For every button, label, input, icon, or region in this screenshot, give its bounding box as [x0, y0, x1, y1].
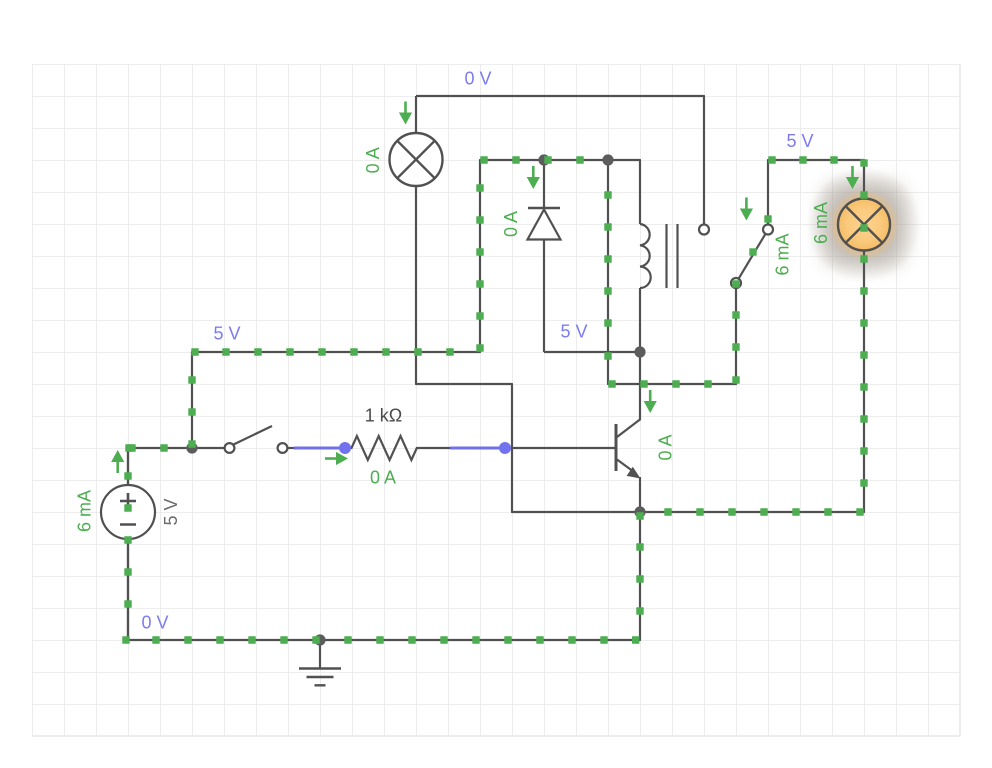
wire current dots sq-x736	[732, 280, 739, 383]
wire 5V right (pivot to lamp L2)	[768, 160, 864, 224]
svg-text:0 A: 0 A	[655, 434, 675, 460]
wire (selected, blue) left of resistor	[288, 447, 298, 449]
wire current dots sq-x128	[124, 444, 132, 607]
wire current dots sq-y352-left	[191, 348, 453, 355]
diode D1	[528, 160, 561, 352]
svg-text:0 A: 0 A	[370, 467, 396, 487]
wire (selected, blue) right of resistor	[450, 447, 502, 450]
voltage source B1 5V	[101, 448, 155, 640]
switch S1 (open)	[192, 426, 287, 453]
wire base	[505, 447, 615, 449]
svg-text:6 mA: 6 mA	[74, 490, 94, 532]
relay switch common bottom	[731, 278, 741, 288]
wire current dots sq-y384	[608, 380, 711, 387]
current arrow at resistor R1	[325, 457, 337, 460]
svg-text:5 V: 5 V	[560, 321, 587, 341]
current arrow at source B1	[116, 462, 119, 474]
svg-text:0 A: 0 A	[363, 147, 383, 173]
wire 0V top	[416, 96, 704, 224]
wire current dots sq-x640	[632, 543, 644, 643]
wire coil bottom to collector node	[639, 288, 641, 352]
node C junction dot	[186, 442, 197, 453]
wire current dots sq-y160-right	[768, 156, 837, 163]
node B junction dot	[602, 154, 613, 165]
resistor R1 1k	[345, 436, 450, 460]
wire current dots sq-y640	[122, 636, 607, 643]
svg-text:0 A: 0 A	[501, 211, 521, 237]
svg-text:0 V: 0 V	[141, 612, 168, 632]
current arrow at diode D1	[532, 166, 535, 178]
current arrow at lamp L2	[851, 166, 854, 178]
node A junction dot	[538, 154, 549, 165]
svg-text:6 mA: 6 mA	[772, 233, 792, 275]
wire lamp L1 bottom run	[416, 186, 638, 512]
wire emitter node down + bottom 0V run	[128, 448, 640, 640]
svg-text:5 V: 5 V	[213, 323, 240, 343]
svg-text:0 V: 0 V	[464, 68, 491, 88]
relay switch blade	[739, 234, 766, 279]
relay coil	[640, 224, 651, 288]
svg-text:1 kΩ: 1 kΩ	[365, 405, 402, 425]
wire current dots sq-y160-mid	[480, 156, 583, 163]
wire current dots sq-blade	[749, 248, 756, 255]
wire top to coil	[544, 160, 640, 224]
lamp L1 (off, 0A)	[390, 96, 443, 186]
ground	[299, 640, 341, 685]
wire current dots sq-y448-left	[128, 444, 167, 451]
wire current dots sq-y512	[636, 508, 863, 519]
transistor Q1 (npn)	[616, 352, 641, 512]
wire lamp L2 bottom to emitter node	[640, 251, 864, 512]
wire 5V left run	[128, 160, 544, 448]
relay switch pivot right	[763, 225, 773, 235]
wire current dots sq-x480	[476, 184, 483, 351]
current arrow at lamp L1	[404, 102, 407, 114]
current arrow at relay switch	[745, 198, 748, 210]
wire current dots sq-x608	[604, 191, 611, 359]
node D junction dot	[634, 346, 645, 357]
node F junction dot	[314, 634, 325, 645]
wire current dots sq-x192	[188, 376, 195, 447]
node dot (blue) resistor right	[499, 442, 511, 454]
node E junction dot	[634, 506, 645, 517]
svg-text:5 V: 5 V	[161, 498, 181, 525]
relay core	[667, 224, 678, 288]
svg-text:6 mA: 6 mA	[811, 202, 831, 244]
relay switch contact left	[699, 225, 709, 235]
wire current dots sq-x768	[764, 215, 771, 222]
wire 5V mid (diode bottom to node)	[544, 351, 640, 353]
wire relay drive run	[608, 160, 736, 384]
current arrow at transistor Q1	[649, 390, 652, 402]
lamp L2 glow	[806, 167, 922, 283]
lamp L2 (lit, 6mA)	[838, 199, 890, 251]
node dot (blue) resistor left	[339, 442, 351, 454]
wire current dots sq-x864	[860, 159, 867, 486]
svg-text:5 V: 5 V	[786, 131, 813, 151]
